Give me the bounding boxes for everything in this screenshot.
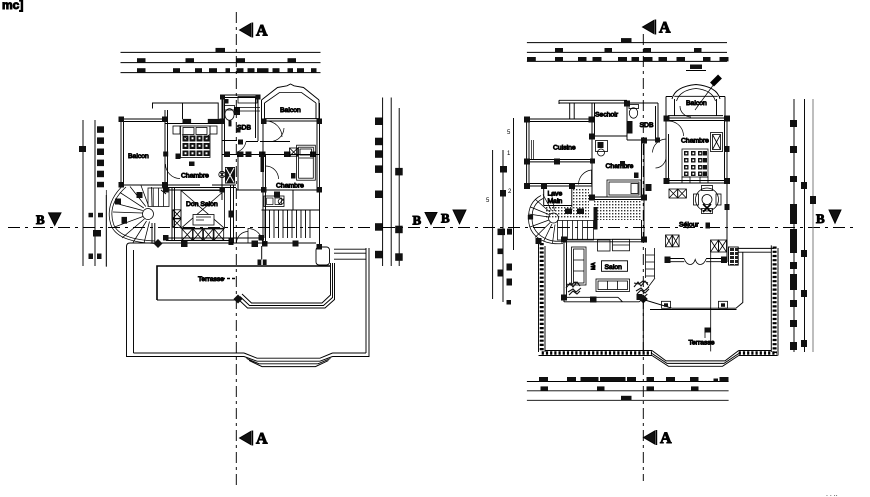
svg-text:Chambre: Chambre (606, 163, 634, 170)
small circles deco (222, 278, 235, 280)
left dim columns of left plan (79, 120, 106, 267)
fixtures top chambre mid (596, 141, 608, 157)
right dim columns of left plan (375, 98, 403, 267)
tile stipple corridor (545, 188, 642, 220)
hall upper wall (260, 141, 290, 143)
vertical seam (710, 252, 712, 351)
spiral stair right plan (528, 194, 563, 244)
terrace top right edge (737, 248, 774, 252)
bed chambre1 (173, 126, 217, 158)
RIGHT PLAN (rdc) (524, 77, 778, 367)
don salon columns (173, 210, 181, 228)
bed chambre3 dotted (682, 149, 708, 177)
chambre1 top wall (165, 123, 222, 125)
terrace bottom band (539, 351, 778, 356)
chamfer sejour sw with diamond (639, 294, 647, 302)
sechoir canopy (559, 100, 627, 119)
x chairs pair (669, 189, 686, 198)
terrace wing lines (334, 249, 366, 259)
plant sw (634, 281, 649, 294)
wall x=238 hall (237, 155, 239, 191)
svg-text:Balcon: Balcon (280, 107, 301, 114)
chambre mid room (592, 140, 644, 239)
bottom dimension band right plan (527, 377, 729, 400)
terrace bottom bay (652, 351, 739, 367)
balcon left room (121, 110, 168, 190)
svg-text:Chambre: Chambre (276, 183, 304, 190)
platform furniture squares (662, 301, 728, 308)
don salon walls (172, 185, 266, 246)
bottom bay (244, 353, 333, 367)
top dimension band right plan (527, 38, 729, 70)
balcon top-right arch (262, 84, 320, 100)
section line A left (235, 12, 237, 485)
svg-text:Salon: Salon (605, 264, 623, 271)
svg-text:A: A (256, 431, 268, 448)
svg-text:Cuisine: Cuisine (553, 145, 576, 152)
house right wall (317, 103, 320, 247)
bed chambre mid (607, 180, 641, 197)
inner platform right (643, 252, 743, 352)
salon room (564, 239, 644, 302)
SDB block (222, 95, 258, 142)
shaft black door (225, 167, 235, 184)
svg-text:Lave: Lave (548, 191, 563, 198)
house bottom wall (166, 238, 262, 241)
svg-text:mc]: mc] (2, 0, 23, 12)
svg-text:Don Salon: Don Salon (186, 201, 218, 208)
don salon seat row (182, 229, 224, 240)
section marker A top-right (643, 20, 672, 37)
straight flight right plan (558, 221, 594, 241)
section marker B far-right (816, 210, 841, 226)
bed chambre2 (290, 145, 316, 180)
section marker A top-left (240, 23, 269, 40)
terrace outer boundary (127, 243, 370, 357)
svg-text:A: A (256, 23, 268, 40)
armoire chambre3 (711, 133, 723, 152)
terrace left stipple band (539, 241, 546, 352)
chambre3 right room (666, 118, 727, 262)
svg-text:Main: Main (548, 198, 563, 205)
roof slope arrow (695, 84, 714, 110)
wall x=222 (222, 95, 225, 200)
roof step outline top (153, 98, 259, 120)
corner ticks (119, 95, 323, 250)
balustrade line y=243 (130, 242, 316, 244)
svg-text:Sechoir: Sechoir (595, 112, 619, 119)
SDB counter (236, 108, 260, 112)
svg-text:B: B (441, 211, 450, 226)
section marker A bottom-left (240, 431, 269, 448)
svg-text:SDB: SDB (640, 122, 654, 129)
salon label boxed (602, 261, 628, 272)
chambre2 left wall (263, 121, 266, 190)
sejour south wall + curtain bay (667, 259, 727, 262)
chambre1 bottom wall (121, 185, 236, 188)
right dim columns of right plan (790, 99, 816, 352)
wall below flight (152, 223, 155, 244)
rooms bottom wall y=190 (166, 189, 320, 191)
svg-text:2: 2 (508, 189, 512, 195)
plant salon left (566, 282, 581, 295)
section marker B far-left (36, 212, 61, 227)
sdb2 block (627, 103, 658, 140)
top dimension band left plan (121, 48, 321, 73)
sechoir room (592, 103, 627, 136)
svg-text:A: A (659, 20, 671, 37)
straight flight top (148, 188, 169, 207)
svg-text:MA: MA (591, 262, 597, 270)
round table sejour (694, 186, 722, 214)
svg-text:Balcon: Balcon (128, 153, 149, 160)
svg-text:Terrasse: Terrasse (198, 276, 224, 283)
hall bottom wall with ticks (222, 154, 320, 156)
svg-text:5: 5 (486, 198, 490, 204)
svg-text:A: A (660, 430, 672, 447)
stairs hatch (265, 210, 310, 238)
arrow above terrasse label (704, 332, 706, 338)
brick pillar (729, 247, 739, 265)
spiral stair (109, 185, 155, 244)
sofas salon (572, 239, 630, 291)
door arc chambre3 (669, 121, 684, 136)
lave main room (527, 184, 592, 211)
LEFT PLAN (etage) (106, 84, 369, 367)
door arcs hall (237, 128, 284, 152)
left garden line (105, 190, 107, 267)
svg-text:Terrasse: Terrasse (689, 340, 715, 347)
terrace right stipple band (771, 245, 778, 355)
section marker A bottom-right (644, 430, 673, 447)
inner platform (157, 266, 330, 300)
svg-text:. . ..: . . .. (826, 491, 838, 497)
section line B horizontal (8, 227, 855, 229)
corner ticks right plan (524, 101, 730, 301)
entrance double door (237, 229, 263, 244)
sejour columns x-boxes (666, 235, 727, 252)
ladder window west bay (646, 248, 655, 278)
svg-text:Balcon: Balcon (686, 100, 707, 107)
top wall right plan (666, 118, 727, 121)
chambre2 door arc (266, 121, 282, 137)
WC toilet (225, 106, 235, 121)
svg-text:B: B (413, 213, 422, 228)
svg-text:Chambre: Chambre (681, 138, 709, 145)
svg-text:B: B (816, 211, 825, 226)
balcon top-right room (262, 100, 320, 121)
svg-text:Séjour: Séjour (679, 222, 699, 229)
svg-text:B: B (36, 212, 45, 227)
cuisine (527, 119, 592, 186)
stair room upper (262, 190, 320, 210)
left dim columns of right plan (486, 130, 512, 204)
svg-text:5: 5 (507, 130, 511, 136)
section marker B mid-1 (413, 213, 438, 228)
section line A right (642, 34, 644, 481)
svg-text:1: 1 (507, 151, 511, 157)
svg-text:Chambre: Chambre (181, 173, 209, 180)
don salon table X (181, 191, 225, 229)
pillar bottom right (316, 247, 330, 265)
balcon2 arch (672, 85, 720, 100)
section marker B mid-2 (441, 210, 466, 226)
